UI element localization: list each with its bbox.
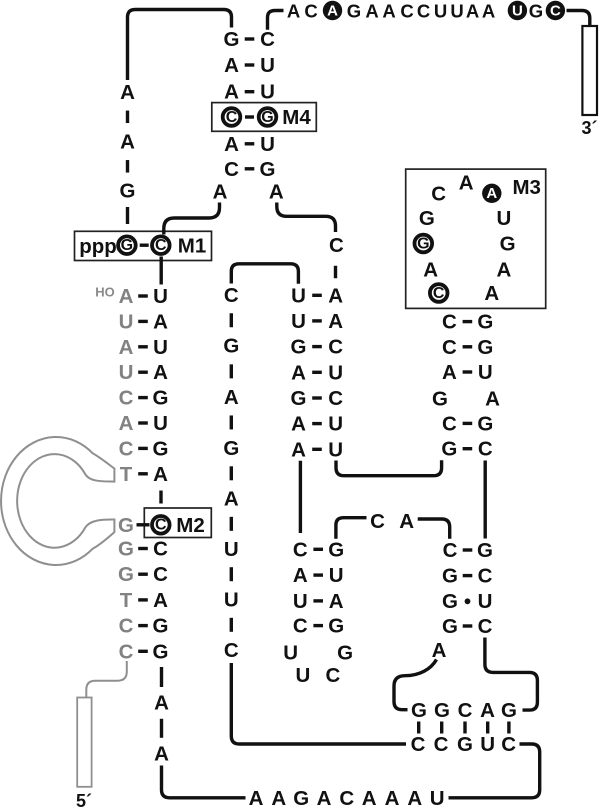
svg-text:G: G (153, 387, 169, 410)
wire: right stem C down to lower-right stem G (484, 461, 487, 539)
svg-text:G: G (442, 565, 458, 588)
svg-text:U: U (329, 564, 344, 587)
bond (245, 90, 255, 93)
box M3 (406, 169, 546, 308)
bond (463, 548, 473, 551)
bond (138, 650, 148, 653)
svg-text:G: G (477, 311, 493, 334)
svg-text:C: C (433, 285, 445, 302)
svg-text:T: T (120, 463, 133, 486)
backbone link (126, 111, 129, 124)
bond GGCAG-CCGUC (507, 722, 510, 734)
bond (138, 294, 148, 297)
svg-text:G: G (291, 336, 307, 359)
bond GGCAG-CCGUC (486, 722, 489, 734)
svg-text:U: U (328, 361, 343, 384)
svg-text:5´: 5´ (76, 791, 92, 810)
circled C (M4) (223, 108, 241, 126)
svg-text:A: A (224, 488, 239, 511)
bond (463, 447, 473, 450)
svg-text:G: G (121, 237, 133, 254)
wire: hairpin G up to junction C (336, 518, 367, 539)
svg-text:G: G (153, 437, 169, 460)
svg-text:M4: M4 (282, 106, 311, 129)
bond (138, 547, 148, 550)
svg-text:C: C (550, 2, 561, 19)
circled C (M1) (152, 236, 170, 254)
svg-text:G: G (477, 336, 493, 359)
bond (312, 345, 322, 348)
bond (312, 371, 322, 374)
svg-text:C: C (370, 510, 385, 533)
bond (312, 294, 322, 297)
bond G-C M2 (137, 523, 150, 526)
box M4 (212, 103, 316, 132)
bond (138, 421, 148, 424)
bond (463, 624, 473, 627)
svg-text:G: G (118, 563, 134, 586)
svg-text:A: A (466, 1, 479, 22)
bond (313, 573, 323, 576)
svg-text:A: A (271, 787, 286, 810)
svg-text:U: U (293, 590, 308, 613)
bond (138, 320, 148, 323)
svg-text:G: G (153, 640, 169, 663)
bond (138, 472, 148, 475)
svg-text:A: A (213, 181, 228, 204)
bond (245, 167, 255, 170)
svg-text:C: C (411, 733, 426, 756)
svg-text:G: G (120, 180, 136, 203)
svg-text:C: C (442, 336, 457, 359)
backbone link (230, 567, 233, 581)
svg-text:G: G (411, 699, 427, 722)
svg-text:G: G (118, 538, 134, 561)
backbone link (230, 313, 233, 327)
svg-text:A: A (119, 285, 134, 308)
svg-text:A: A (154, 743, 169, 766)
svg-text:C: C (442, 311, 457, 334)
svg-text:T: T (120, 589, 133, 612)
filled circle A (3' sequence) (323, 1, 342, 20)
gray protein/loop ribbon (1, 437, 114, 565)
svg-text:3´: 3´ (581, 118, 597, 138)
svg-text:A: A (385, 787, 400, 810)
svg-text:U: U (328, 438, 343, 461)
wire: junction A to C above P3 (277, 203, 336, 233)
svg-text:G: G (417, 235, 429, 252)
svg-text:G: G (419, 207, 435, 230)
svg-text:A: A (119, 336, 134, 359)
wire: P3 right to upper-right stem (336, 460, 442, 475)
svg-text:A: A (119, 412, 134, 435)
svg-text:A: A (291, 361, 306, 384)
svg-text:U: U (224, 588, 239, 611)
svg-text:C: C (119, 387, 134, 410)
svg-text:A: A (365, 1, 378, 22)
bond GGCAG-CCGUC (463, 722, 466, 734)
svg-text:A: A (269, 181, 284, 204)
svg-text:A: A (496, 258, 511, 281)
svg-text:A: A (399, 510, 414, 533)
bond (463, 422, 473, 425)
wire: top bracket joining left chain to stem P2 (128, 10, 232, 81)
svg-text:A: A (407, 787, 422, 810)
svg-text:A: A (317, 787, 332, 810)
svg-text:U: U (260, 54, 275, 77)
backbone link (230, 364, 233, 378)
svg-text:C: C (329, 234, 344, 257)
bond G-C M1 (140, 243, 149, 246)
wire: P3 left to P4 stem (299, 461, 302, 533)
svg-text:A: A (287, 1, 300, 22)
bond (138, 598, 148, 601)
wire: middle chain C to CCGUC (231, 663, 406, 744)
svg-text:U: U (119, 361, 134, 384)
svg-text:U: U (295, 664, 310, 687)
svg-text:A: A (362, 787, 377, 810)
svg-text:G: G (432, 387, 448, 410)
svg-text:A: A (153, 310, 168, 333)
svg-text:G: G (441, 438, 457, 461)
svg-text:A: A (432, 639, 447, 662)
svg-text:A: A (120, 131, 135, 154)
svg-text:U: U (153, 336, 168, 359)
svg-text:G: G (224, 28, 240, 51)
backbone link (126, 207, 129, 224)
bond C-G M4 (245, 115, 254, 118)
svg-text:G: G (529, 1, 543, 22)
svg-text:C: C (224, 284, 239, 307)
svg-text:C: C (119, 437, 134, 460)
svg-text:C: C (293, 538, 308, 561)
3-prime end box (582, 26, 597, 115)
svg-text:G: G (434, 699, 450, 722)
bond (138, 624, 148, 627)
backbone link (230, 517, 233, 531)
svg-text:C: C (224, 639, 239, 662)
bond GGCAG-CCGUC (417, 722, 420, 734)
svg-text:C: C (478, 615, 493, 638)
wire: stem P2 C to 3' sequence (268, 11, 284, 30)
wire: junction A to M1 C (164, 203, 220, 235)
circled C (M2) (152, 516, 170, 534)
svg-text:U: U (119, 310, 134, 333)
bond (312, 396, 322, 399)
svg-text:A: A (382, 1, 395, 22)
filled circle C (3' sequence) (546, 1, 565, 20)
svg-text:C: C (325, 664, 340, 687)
svg-text:A: A (153, 361, 168, 384)
svg-text:A: A (459, 171, 474, 194)
svg-text:G: G (442, 590, 458, 613)
svg-text:A: A (482, 1, 495, 22)
svg-text:C: C (155, 517, 167, 534)
svg-text:A: A (154, 692, 169, 715)
svg-text:U: U (283, 642, 298, 665)
bond GGCAG-CCGUC (440, 722, 443, 734)
gray wire to 5' box (86, 661, 127, 697)
bond (245, 37, 255, 40)
wire: sequence to 3' box (567, 11, 590, 26)
svg-text:U: U (496, 207, 511, 230)
svg-text:A: A (480, 699, 495, 722)
circled G (M3) (415, 235, 433, 253)
svg-text:G: G (293, 787, 309, 810)
svg-text:C: C (153, 563, 168, 586)
backbone link (230, 415, 233, 429)
svg-text:A: A (329, 590, 344, 613)
bond (138, 573, 148, 576)
bond (313, 548, 323, 551)
bond (245, 63, 255, 66)
wire: M1 C to left duplex U (159, 257, 162, 285)
svg-text:G: G (477, 539, 493, 562)
backbone link (126, 160, 129, 173)
svg-text:U: U (434, 1, 447, 22)
svg-text:G: G (477, 412, 493, 435)
svg-text:C: C (434, 733, 449, 756)
svg-text:A: A (442, 361, 457, 384)
bond (313, 624, 323, 627)
svg-text:G: G (328, 538, 344, 561)
svg-text:U: U (478, 590, 493, 613)
svg-text:U: U (291, 310, 306, 333)
svg-text:HO: HO (95, 285, 115, 300)
svg-text:C: C (304, 1, 317, 22)
svg-text:C: C (328, 336, 343, 359)
bond (312, 319, 322, 322)
svg-text:A: A (153, 463, 168, 486)
backbone link to M2 (159, 491, 162, 504)
bond (138, 396, 148, 399)
svg-text:G: G (118, 514, 134, 537)
svg-text:G: G (260, 158, 276, 181)
svg-text:A: A (153, 589, 168, 612)
wire: junction A down to lower-right stem (418, 519, 450, 539)
bond (463, 345, 473, 348)
svg-text:C: C (293, 615, 308, 638)
box M1 (75, 231, 212, 260)
svg-text:U: U (224, 538, 239, 561)
svg-text:C: C (328, 387, 343, 410)
svg-text:C: C (153, 538, 168, 561)
bond (312, 422, 322, 425)
svg-text:A: A (120, 81, 135, 104)
circled G (M4) (259, 108, 277, 126)
svg-text:C: C (501, 733, 516, 756)
svg-text:C: C (224, 158, 239, 181)
svg-text:C: C (119, 615, 134, 638)
svg-text:C: C (400, 1, 413, 22)
bond (463, 320, 473, 323)
svg-text:C: C (417, 1, 430, 22)
svg-text:U: U (153, 412, 168, 435)
svg-text:C: C (478, 438, 493, 461)
svg-text:A: A (328, 284, 343, 307)
filled circle A (M3) (482, 184, 501, 203)
svg-text:C: C (431, 182, 446, 205)
wobble pair dot G-U (465, 598, 471, 604)
svg-text:G: G (457, 733, 473, 756)
svg-text:A: A (291, 413, 306, 436)
svg-text:M1: M1 (178, 234, 206, 257)
svg-text:G: G (442, 615, 458, 638)
circled C (M3) (430, 284, 448, 302)
svg-text:U: U (480, 733, 495, 756)
svg-text:C: C (339, 787, 354, 810)
svg-text:G: G (223, 335, 239, 358)
backbone link (230, 466, 233, 480)
backbone link (230, 618, 233, 632)
svg-text:M3: M3 (512, 176, 540, 199)
svg-text:A: A (249, 787, 264, 810)
svg-text:M2: M2 (176, 514, 204, 537)
svg-text:A: A (327, 2, 338, 19)
svg-text:G: G (347, 1, 361, 22)
wire: lower-right stem C around to GGCAG G (485, 638, 538, 711)
svg-text:G: G (153, 615, 169, 638)
svg-text:C: C (478, 565, 493, 588)
filled circle U (3' sequence) (508, 1, 527, 20)
svg-text:U: U (328, 413, 343, 436)
svg-text:G: G (328, 615, 344, 638)
bond (138, 371, 148, 374)
svg-text:G: G (223, 437, 239, 460)
svg-text:ppp: ppp (79, 235, 117, 258)
svg-text:U: U (260, 81, 275, 104)
svg-text:U: U (291, 284, 306, 307)
svg-text:U: U (512, 2, 523, 19)
svg-text:A: A (224, 54, 239, 77)
svg-text:C: C (442, 412, 457, 435)
bond (313, 599, 323, 602)
bond (138, 447, 148, 450)
svg-text:C: C (458, 699, 473, 722)
svg-text:A: A (224, 386, 239, 409)
backbone link (160, 667, 163, 687)
svg-text:G: G (291, 387, 307, 410)
svg-text:C: C (119, 640, 134, 663)
svg-text:A: A (224, 81, 239, 104)
bond (138, 345, 148, 348)
svg-text:C: C (226, 109, 238, 126)
svg-text:G: G (261, 109, 273, 126)
wire: CCGUC to AAGACAAAU (449, 744, 540, 798)
svg-text:A: A (423, 258, 438, 281)
svg-text:U: U (450, 1, 463, 22)
svg-text:A: A (224, 133, 239, 156)
wire: arch middle chain to stem P3 (231, 264, 298, 284)
wire: A down to GGCAG (394, 660, 437, 710)
backbone link (334, 266, 337, 279)
bond (245, 142, 255, 145)
bond (312, 448, 322, 451)
svg-text:C: C (443, 539, 458, 562)
svg-text:A: A (485, 387, 500, 410)
svg-text:G: G (337, 642, 353, 665)
svg-text:U: U (430, 787, 445, 810)
svg-text:A: A (293, 564, 308, 587)
svg-text:G: G (500, 233, 516, 256)
bond (463, 574, 473, 577)
svg-text:C: C (260, 28, 275, 51)
bond (463, 370, 473, 373)
box M2 (144, 508, 211, 538)
svg-text:U: U (260, 133, 275, 156)
svg-text:A: A (328, 310, 343, 333)
svg-text:A: A (486, 185, 497, 202)
svg-text:U: U (478, 361, 493, 384)
wire: bottom chain to AAGACAAAU (162, 766, 246, 798)
5-prime end box (77, 698, 91, 787)
svg-text:A: A (484, 282, 499, 305)
svg-text:G: G (501, 699, 517, 722)
backbone link (160, 719, 163, 738)
svg-text:A: A (291, 438, 306, 461)
circled G (M1) (118, 236, 136, 254)
svg-text:C: C (155, 237, 167, 254)
svg-text:U: U (153, 285, 168, 308)
